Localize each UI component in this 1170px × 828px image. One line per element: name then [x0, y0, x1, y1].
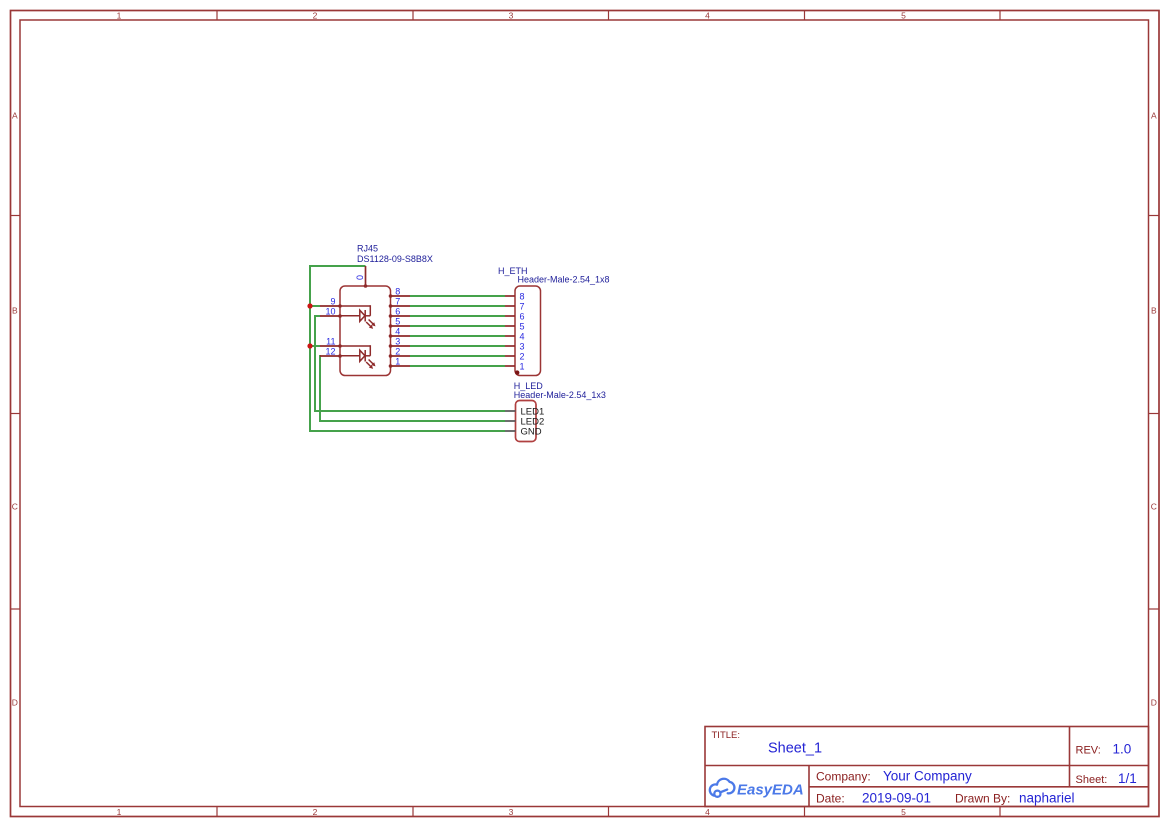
title block [705, 727, 1149, 807]
wire [410, 295, 505, 297]
LED D1 inside RJ45 [340, 305, 374, 327]
pin 9 [320, 305, 340, 307]
wire [410, 365, 505, 367]
svg-text:8: 8 [520, 292, 525, 302]
svg-text:2: 2 [313, 807, 318, 817]
pin 4 [505, 335, 515, 337]
svg-text:C: C [1151, 502, 1157, 512]
pin 10 [320, 315, 340, 317]
wire [319, 355, 321, 422]
svg-text:1: 1 [520, 362, 525, 372]
svg-text:1: 1 [117, 11, 122, 21]
svg-text:11: 11 [326, 337, 335, 347]
svg-text:A: A [12, 111, 18, 121]
svg-text:12: 12 [325, 347, 335, 357]
pin 8 [505, 295, 515, 297]
pin 7 [391, 305, 411, 307]
svg-text:D: D [12, 698, 18, 708]
svg-text:Header-Male-2.54_1x8: Header-Male-2.54_1x8 [518, 274, 610, 284]
svg-text:1/1: 1/1 [1118, 771, 1137, 786]
wire [309, 265, 311, 432]
svg-text:7: 7 [520, 302, 525, 312]
pin 4 [391, 335, 411, 337]
svg-text:1.0: 1.0 [1113, 742, 1132, 757]
svg-text:2: 2 [395, 346, 400, 356]
svg-text:naphariel: naphariel [1019, 791, 1075, 806]
svg-text:C: C [12, 502, 18, 512]
wire [410, 325, 505, 327]
wire [319, 420, 505, 422]
svg-text:0: 0 [355, 275, 365, 280]
svg-text:4: 4 [520, 332, 525, 342]
svg-text:Sheet:: Sheet: [1076, 774, 1108, 786]
wire [410, 335, 505, 337]
pin 8 [391, 295, 411, 297]
wire [309, 430, 505, 432]
svg-text:GND: GND [521, 427, 542, 438]
pin 2 [505, 355, 515, 357]
svg-text:2: 2 [520, 352, 525, 362]
svg-text:3: 3 [395, 336, 400, 346]
svg-text:6: 6 [395, 306, 400, 316]
wire [410, 355, 505, 357]
pin 1 [391, 365, 411, 367]
svg-text:A: A [1151, 111, 1157, 121]
pin LED1 [505, 410, 516, 412]
junction [307, 303, 312, 308]
svg-text:4: 4 [705, 11, 710, 21]
svg-text:5: 5 [395, 316, 400, 326]
wire [310, 345, 320, 347]
pin 0 [365, 266, 367, 286]
pin 6 [505, 315, 515, 317]
pin 2 [391, 355, 411, 357]
svg-text:3: 3 [520, 342, 525, 352]
svg-text:RJ45: RJ45 [357, 244, 378, 254]
svg-text:Sheet_1: Sheet_1 [768, 741, 822, 757]
pin 11 [320, 345, 340, 347]
pin 3 [505, 345, 515, 347]
svg-text:B: B [12, 306, 18, 316]
pin LED2 [505, 420, 516, 422]
svg-text:9: 9 [330, 297, 335, 307]
svg-text:Header-Male-2.54_1x3: Header-Male-2.54_1x3 [514, 390, 606, 400]
pin GND [505, 430, 516, 432]
LED D2 inside RJ45 [340, 345, 374, 367]
svg-text:3: 3 [509, 11, 514, 21]
header H_ETH [498, 266, 610, 376]
wire [314, 410, 505, 412]
wire [410, 315, 505, 317]
wire [314, 315, 320, 317]
wire net GND top segment [309, 265, 505, 432]
svg-text:5: 5 [901, 807, 906, 817]
svg-text:6: 6 [520, 312, 525, 322]
svg-text:8: 8 [395, 286, 400, 296]
svg-text:5: 5 [901, 11, 906, 21]
svg-text:Your Company: Your Company [883, 769, 972, 784]
pin 5 [391, 325, 411, 327]
pin 7 [505, 305, 515, 307]
svg-text:1: 1 [395, 356, 400, 366]
svg-text:D: D [1151, 698, 1157, 708]
svg-text:B: B [1151, 306, 1157, 316]
svg-text:Drawn By:: Drawn By: [955, 792, 1010, 806]
header H_LED [505, 381, 606, 441]
svg-text:2019-09-01: 2019-09-01 [862, 791, 931, 806]
wire [314, 315, 316, 412]
wire [309, 265, 366, 267]
svg-text:DS1128-09-S8B8X: DS1128-09-S8B8X [357, 254, 433, 264]
pin 1 [505, 365, 515, 367]
svg-text:4: 4 [395, 326, 400, 336]
pin 12 [320, 355, 340, 357]
svg-text:REV:: REV: [1076, 745, 1101, 757]
svg-text:7: 7 [395, 296, 400, 306]
pin 3 [391, 345, 411, 347]
svg-text:5: 5 [520, 322, 525, 332]
svg-text:EasyEDA: EasyEDA [737, 781, 804, 798]
connector RJ45 [320, 244, 433, 376]
svg-text:1: 1 [117, 807, 122, 817]
wire [410, 305, 505, 307]
wire [310, 305, 320, 307]
svg-text:Date:: Date: [816, 792, 845, 806]
pin1 polarity dot [515, 370, 519, 374]
svg-text:4: 4 [705, 807, 710, 817]
svg-text:TITLE:: TITLE: [712, 730, 741, 741]
svg-text:2: 2 [313, 11, 318, 21]
svg-text:3: 3 [509, 807, 514, 817]
svg-text:Company:: Company: [816, 770, 871, 784]
junction [307, 343, 312, 348]
pin 6 [391, 315, 411, 317]
EasyEDA logo [710, 779, 735, 797]
pin 5 [505, 325, 515, 327]
wire [410, 345, 505, 347]
svg-text:10: 10 [325, 307, 335, 317]
